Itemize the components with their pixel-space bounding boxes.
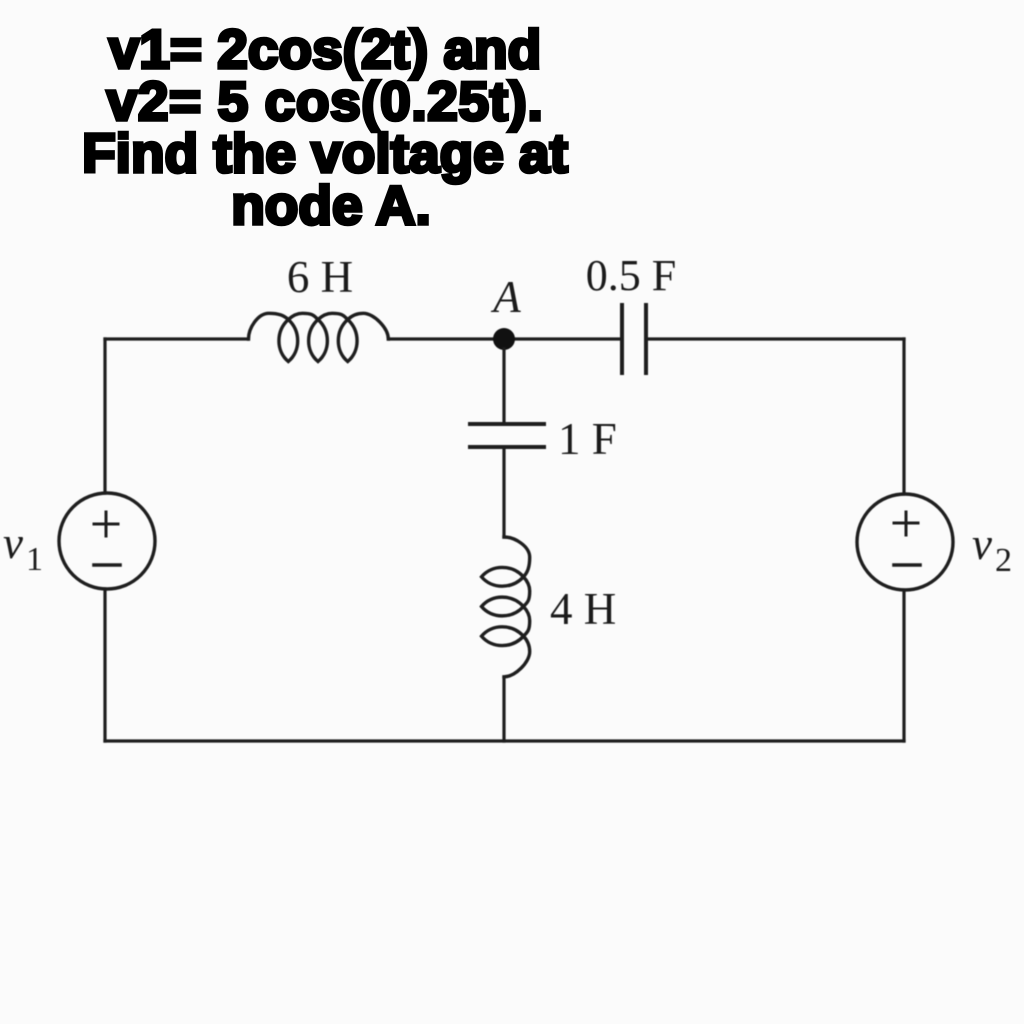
svg-text:6 H: 6 H xyxy=(287,252,353,302)
V1 plus sign xyxy=(94,512,118,536)
inductor L2 4H coil xyxy=(482,537,530,677)
wire: right vertical bottom (v2 to corner) xyxy=(902,590,905,741)
V2 minus sign xyxy=(894,563,920,567)
voltage source V1 circle xyxy=(59,493,155,589)
title: problem statement xyxy=(0,23,650,231)
svg-text:A: A xyxy=(490,272,521,322)
wire: middle branch mid (1F to 4H) xyxy=(502,447,505,537)
wire: top right segment (0.5F to corner) xyxy=(646,337,904,340)
wire: right vertical top (corner to v2) xyxy=(902,339,905,494)
capacitor C1 0.5F left plate xyxy=(620,305,624,373)
wire: top-left horizontal to inductor xyxy=(105,337,248,340)
capacitor C1 0.5F right plate xyxy=(644,305,648,373)
V2 plus sign xyxy=(894,512,918,535)
wire: middle branch bottom (4H to bottom wire) xyxy=(502,678,505,741)
svg-text:0.5 F: 0.5 F xyxy=(586,251,676,300)
V1 minus sign xyxy=(94,563,120,567)
inductor L1 6H coil xyxy=(249,313,389,361)
capacitor C2 1F top plate xyxy=(470,422,544,426)
svg-text:v1: v1 xyxy=(3,518,43,578)
wire: left vertical (v1 to top-left corner) xyxy=(103,339,106,493)
wire: bottom horizontal xyxy=(105,739,904,742)
capacitor C2 1F bottom plate xyxy=(470,445,544,449)
svg-text:1 F: 1 F xyxy=(558,414,617,464)
svg-text:4 H: 4 H xyxy=(550,584,616,634)
svg-text:v2: v2 xyxy=(972,519,1012,579)
wire: left vertical bottom (corner to v1) xyxy=(103,589,106,741)
node A dot xyxy=(493,328,515,350)
wire: top middle segment (inductor to 0.5F) xyxy=(390,337,620,340)
wire: middle branch top (node A to 1F) xyxy=(502,349,505,424)
voltage source V2 circle xyxy=(857,494,953,590)
